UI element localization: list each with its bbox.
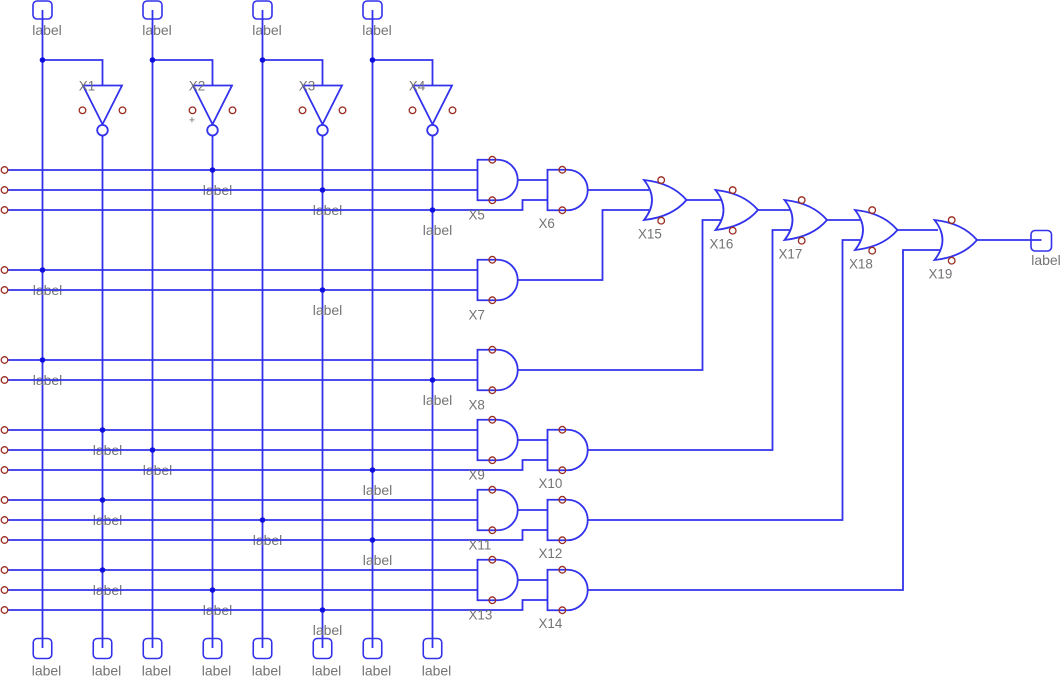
OR gate X17	[779, 197, 828, 262]
junction L10 tap	[370, 467, 376, 473]
wire product line L14	[8, 569, 478, 571]
OR gate X16	[710, 187, 759, 252]
open pin L2 left end	[1, 187, 8, 194]
svg-text:X5: X5	[469, 207, 485, 222]
output rail box B5	[252, 639, 282, 679]
wire X1 output rail	[102, 135, 104, 648]
junction L13 tap	[370, 537, 376, 543]
AND gate X7	[469, 256, 518, 322]
svg-text:label: label	[363, 552, 393, 568]
svg-text:label: label	[92, 663, 122, 679]
wire X17 out to X18	[827, 219, 860, 221]
junction in4 branch	[370, 57, 376, 63]
junction L1 tap	[210, 167, 216, 173]
junction L5 tap	[320, 287, 326, 293]
inverter X1	[79, 79, 126, 136]
open pin L8 left end	[1, 427, 8, 434]
wire product line L13	[8, 530, 548, 540]
svg-text:X14: X14	[539, 616, 563, 631]
svg-text:X7: X7	[469, 307, 485, 322]
AND gate X9	[469, 416, 518, 482]
wire X14 out to X19	[588, 250, 941, 590]
wire rail in3	[262, 10, 264, 648]
open pin L4 left end	[1, 267, 8, 274]
output rail box B6	[312, 639, 342, 679]
junction L12 tap	[260, 517, 266, 523]
open pin L3 left end	[1, 207, 8, 214]
OR gate X15	[638, 177, 687, 242]
wire X7 out to X15	[518, 210, 650, 280]
open pin L14 left end	[1, 567, 8, 574]
svg-text:label: label	[313, 302, 343, 318]
junction L3 tap	[430, 207, 436, 213]
wire X8 out to X16	[518, 220, 722, 370]
wire product line L15	[8, 589, 478, 591]
OR gate X18	[849, 207, 898, 272]
wire product line L5	[8, 289, 478, 291]
svg-text:label: label	[362, 22, 392, 38]
svg-text:label: label	[423, 392, 453, 408]
svg-text:label: label	[423, 222, 453, 238]
wire X5 out to X6	[518, 179, 548, 181]
wire X19 out to OUT	[977, 239, 1042, 241]
AND gate X6	[539, 166, 588, 230]
svg-text:label: label	[363, 482, 393, 498]
open pin L11 left end	[1, 497, 8, 504]
open pin L16 left end	[1, 607, 8, 614]
wire X9 out to X10	[518, 439, 548, 441]
svg-text:X11: X11	[469, 537, 492, 552]
wire X13 out to X14	[518, 579, 548, 581]
wire X18 out to X19	[898, 229, 939, 231]
open pin L7 left end	[1, 377, 8, 384]
output rail box B4	[202, 639, 232, 679]
svg-text:X3: X3	[299, 79, 315, 94]
svg-text:X9: X9	[469, 467, 485, 482]
input IN3	[252, 1, 282, 38]
open pin L13 left end	[1, 537, 8, 544]
open pin L12 left end	[1, 517, 8, 524]
AND gate X8	[469, 346, 518, 412]
svg-text:X2: X2	[189, 79, 205, 94]
open pin L10 left end	[1, 467, 8, 474]
wire rail in2	[152, 10, 154, 648]
junction L4 tap	[40, 267, 46, 273]
wire X4 output rail	[432, 135, 434, 648]
wire branch in4 to X4	[373, 60, 433, 86]
svg-text:label: label	[32, 22, 62, 38]
wire product line L1	[8, 169, 478, 171]
inverter X4	[409, 79, 456, 136]
AND gate X5	[469, 156, 518, 222]
junction L6 tap	[40, 357, 46, 363]
wire product line L7	[8, 379, 478, 381]
svg-text:X17: X17	[779, 247, 803, 262]
junction L2 tap	[320, 187, 326, 193]
svg-text:label: label	[1031, 252, 1061, 268]
junction L14 tap	[100, 567, 106, 573]
open pin L5 left end	[1, 287, 8, 294]
wire branch in3 to X3	[263, 60, 323, 86]
AND gate X12	[539, 496, 588, 560]
wire X6 out to X15	[588, 189, 650, 191]
AND gate X13	[469, 556, 518, 622]
svg-text:label: label	[252, 663, 282, 679]
output rail box B7	[362, 639, 392, 679]
wire product line L16	[8, 600, 548, 610]
svg-text:X13: X13	[469, 607, 493, 622]
junction in3 branch	[260, 57, 266, 63]
svg-text:label: label	[142, 663, 172, 679]
junction in2 branch	[150, 57, 156, 63]
svg-text:label: label	[362, 663, 392, 679]
svg-text:label: label	[422, 663, 452, 679]
wire X10 out to X17	[588, 230, 791, 450]
open pin L6 left end	[1, 357, 8, 364]
svg-text:X1: X1	[79, 79, 95, 94]
output rail box B8	[422, 639, 452, 679]
output rail box B1	[32, 639, 62, 679]
wire product line L11	[8, 499, 478, 501]
wire product line L10	[8, 460, 548, 470]
junction L11 tap	[100, 497, 106, 503]
junction L16 tap	[320, 607, 326, 613]
input IN2	[142, 1, 172, 38]
input IN1	[32, 1, 62, 38]
junction L8 tap	[100, 427, 106, 433]
svg-text:X15: X15	[638, 227, 662, 242]
junction L9 tap	[150, 447, 156, 453]
wire product line L9	[8, 449, 478, 451]
wire product line L8	[8, 429, 478, 431]
wire branch in2 to X2	[153, 60, 213, 86]
wire product line L12	[8, 519, 478, 521]
junction L15 tap	[210, 587, 216, 593]
svg-text:label: label	[142, 22, 172, 38]
AND gate X10	[539, 426, 588, 490]
wire product line L4	[8, 269, 478, 271]
AND gate X11	[469, 486, 518, 552]
svg-text:+: +	[189, 115, 195, 127]
inverter X3	[299, 79, 346, 136]
svg-text:X19: X19	[929, 267, 953, 282]
svg-text:X16: X16	[710, 237, 734, 252]
wire X11 out to X12	[518, 509, 548, 511]
wire branch in1 to X1	[43, 60, 103, 86]
junction L7 tap	[430, 377, 436, 383]
svg-text:X12: X12	[539, 546, 563, 561]
svg-text:X6: X6	[539, 216, 555, 231]
wire X16 out to X17	[758, 209, 791, 211]
AND gate X14	[539, 566, 588, 630]
svg-text:X8: X8	[469, 397, 485, 412]
svg-text:label: label	[202, 663, 232, 679]
wire product line L6	[8, 359, 478, 361]
svg-text:label: label	[252, 22, 282, 38]
wire product line L3	[8, 200, 548, 210]
svg-text:X10: X10	[539, 476, 563, 491]
output rail box B3	[142, 639, 172, 679]
svg-text:label: label	[312, 663, 342, 679]
wire X12 out to X18	[588, 240, 861, 520]
output rail box B2	[92, 639, 122, 679]
wire rail in1	[42, 10, 44, 648]
OR gate X19	[929, 217, 978, 282]
wire rail in4	[372, 10, 374, 648]
wire product line L2	[8, 189, 478, 191]
wire X15 out to X16	[687, 199, 722, 201]
input IN4	[362, 1, 392, 38]
svg-text:label: label	[313, 622, 343, 638]
inverter X2	[189, 79, 236, 136]
svg-text:X4: X4	[409, 79, 426, 94]
junction in1 branch	[40, 57, 46, 63]
wire X2 output rail	[212, 135, 214, 648]
open pin L15 left end	[1, 587, 8, 594]
svg-text:label: label	[32, 663, 62, 679]
svg-text:X18: X18	[849, 257, 873, 272]
output OUT	[1031, 231, 1061, 269]
wire X3 output rail	[322, 135, 324, 648]
open pin L9 left end	[1, 447, 8, 454]
open pin L1 left end	[1, 167, 8, 174]
